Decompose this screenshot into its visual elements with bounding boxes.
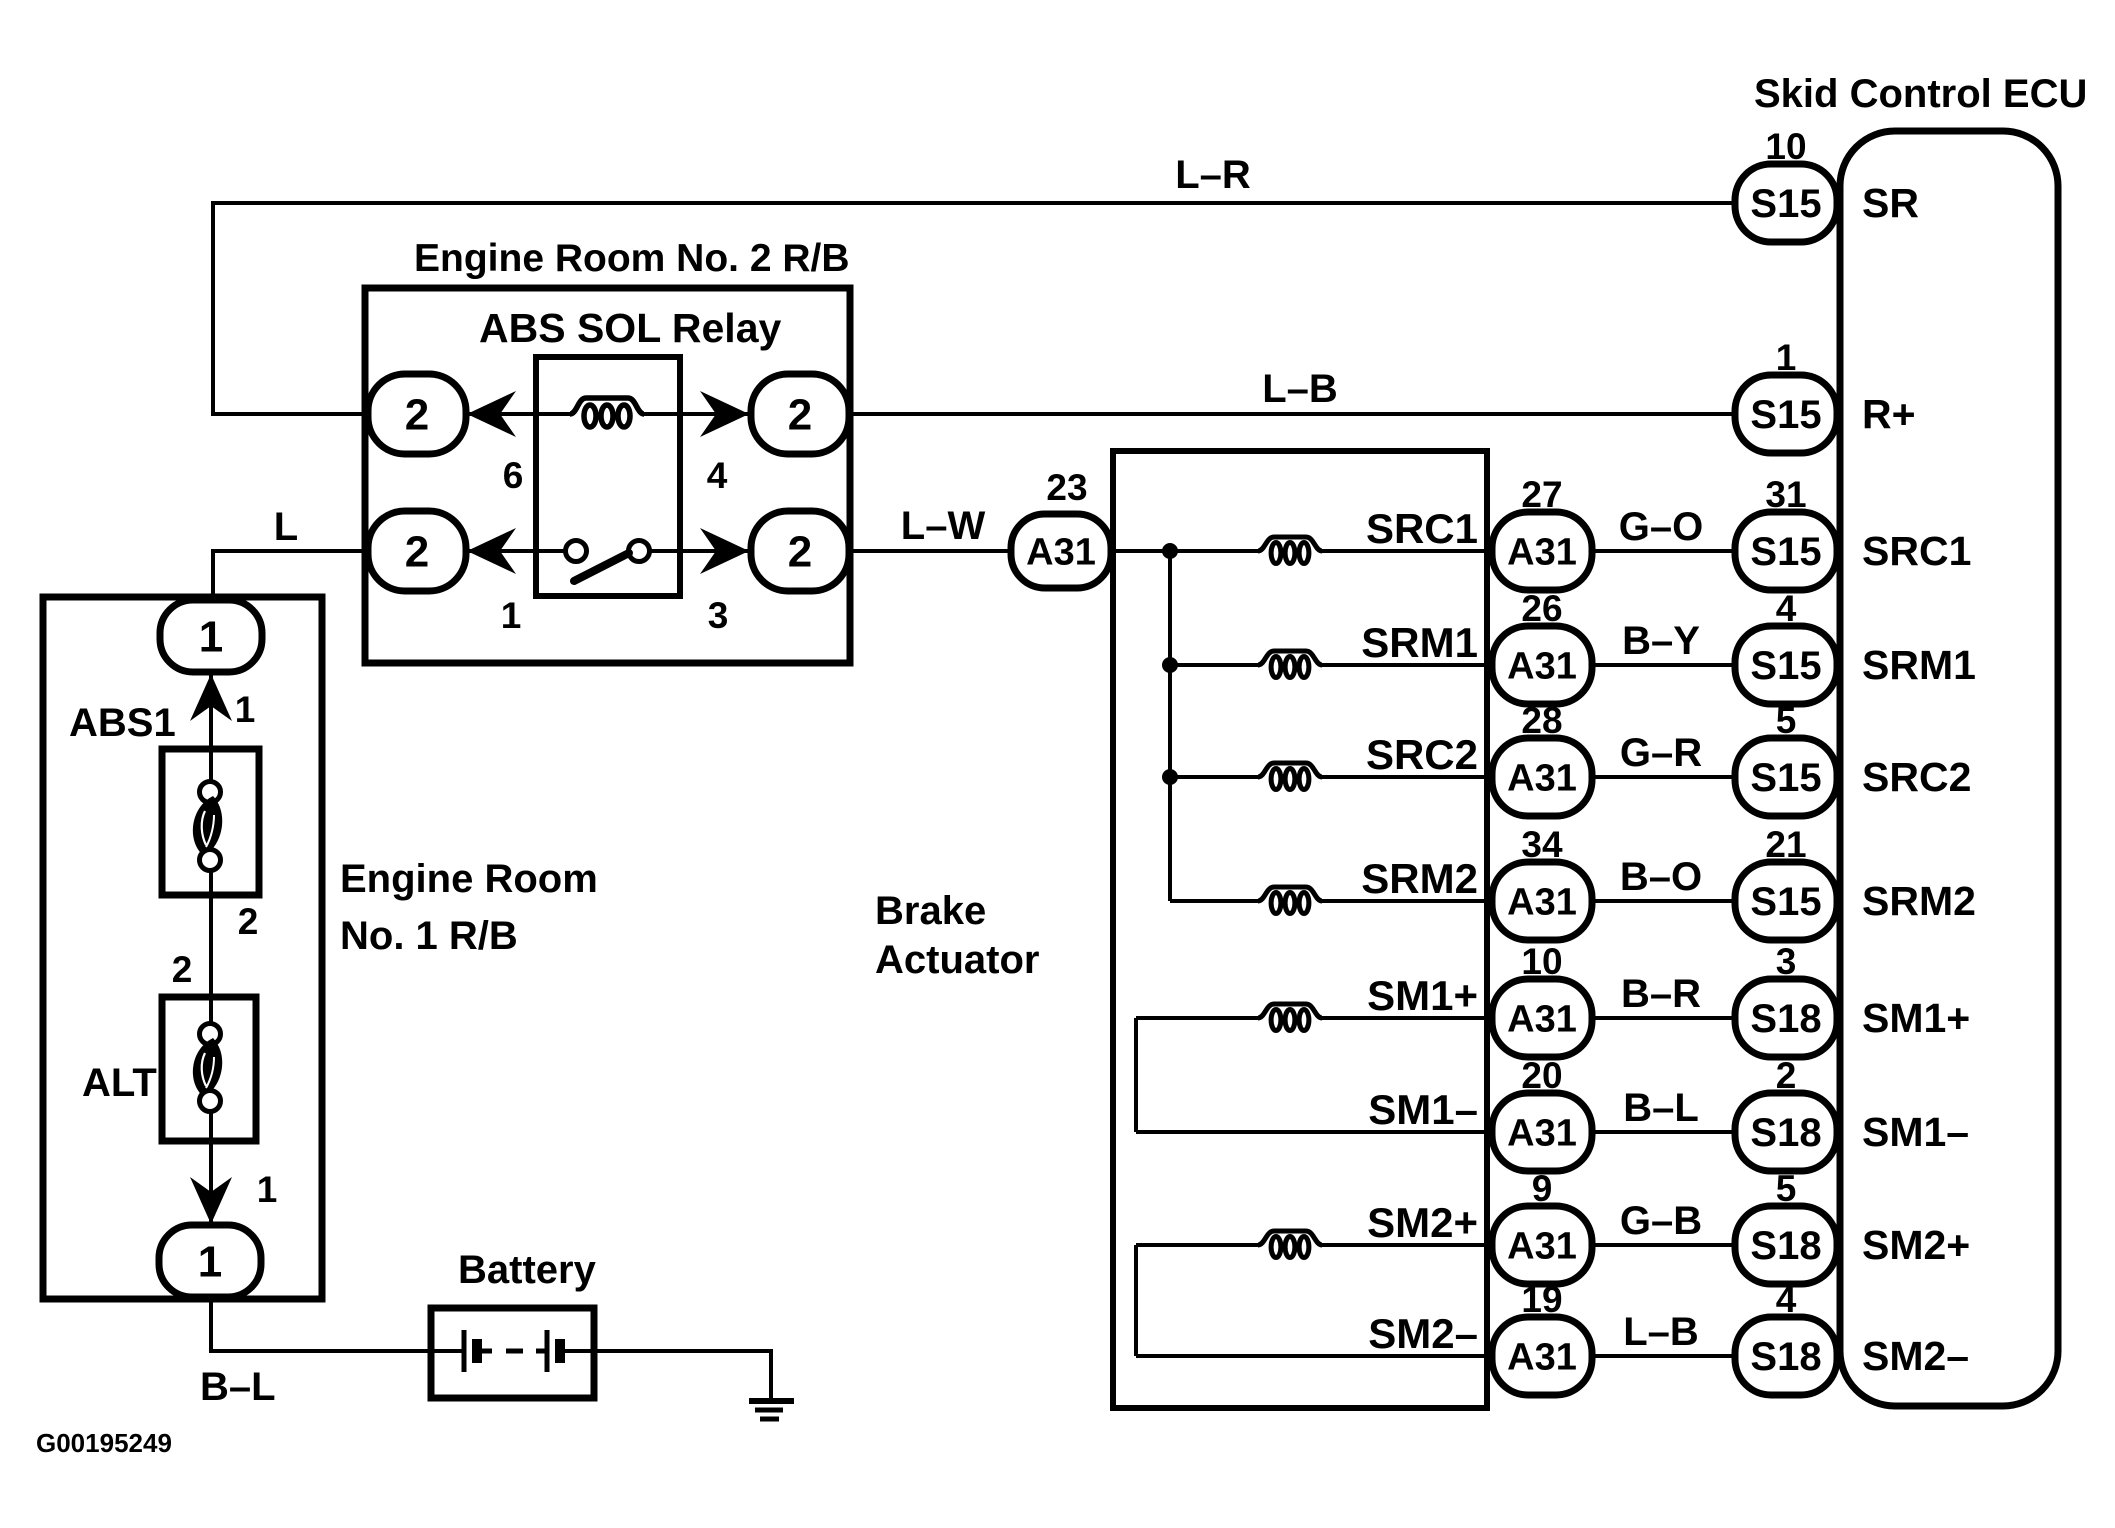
- svg-text:SM2–: SM2–: [1862, 1333, 1969, 1379]
- svg-text:A31: A31: [1026, 531, 1096, 573]
- wire B&#8211;Y (SRM1 to ECU): [1592, 663, 1737, 667]
- svg-text:1: 1: [257, 1169, 278, 1210]
- arrow up into connector 1: [190, 674, 232, 721]
- connector A31 pin 34: [1492, 862, 1592, 940]
- svg-text:SM2+: SM2+: [1367, 1199, 1478, 1246]
- wire solenoid SRC1 row: [1113, 549, 1260, 553]
- fuse ABS1 element: [193, 796, 222, 856]
- fusible link ALT terminal bottom: [200, 1091, 221, 1112]
- wire L (relay pin 1 to fuse block): [213, 549, 370, 553]
- node junction SRM1: [1162, 657, 1178, 673]
- connector 1 (fuse block bottom): [159, 1225, 261, 1297]
- connector A31 pin 9: [1492, 1206, 1592, 1284]
- svg-text:1: 1: [198, 1238, 222, 1287]
- wire motor SM2 loop: [1134, 1245, 1138, 1356]
- svg-text:G00195249: G00195249: [36, 1428, 172, 1458]
- svg-text:2: 2: [788, 528, 812, 577]
- solenoid coil SRC2: [1258, 763, 1322, 777]
- svg-text:2: 2: [172, 949, 193, 990]
- svg-text:A31: A31: [1507, 881, 1577, 923]
- arrow down into bottom connector 1: [190, 1177, 232, 1224]
- connector S15 pin 4 (SRM1): [1735, 626, 1837, 704]
- battery center dashes: [478, 1349, 492, 1354]
- svg-text:S18: S18: [1750, 1224, 1821, 1268]
- svg-text:B–Y: B–Y: [1622, 619, 1700, 663]
- wire relay to pin 4: [680, 412, 753, 416]
- svg-text:SRM2: SRM2: [1862, 878, 1976, 924]
- connector S18 pin 3 (SM1+): [1735, 979, 1837, 1057]
- wire B-L (to battery): [209, 1295, 213, 1351]
- svg-text:L: L: [274, 505, 298, 549]
- wire B&#8211;L (SM1&#8211; to ECU): [1592, 1130, 1737, 1134]
- svg-text:B–L: B–L: [200, 1365, 276, 1409]
- svg-text:SR: SR: [1862, 180, 1919, 226]
- svg-text:Engine Room No. 2 R/B: Engine Room No. 2 R/B: [414, 237, 850, 280]
- svg-text:SM1–: SM1–: [1368, 1086, 1478, 1133]
- connector 2 (relay pin 1): [368, 511, 466, 591]
- solenoid coil SRM2: [1258, 887, 1322, 901]
- svg-text:4: 4: [707, 455, 728, 496]
- connector S15 pin 21 (SRM2): [1735, 862, 1837, 940]
- svg-text:G–B: G–B: [1620, 1199, 1702, 1243]
- wire oval1 to fuse ABS1: [209, 672, 213, 783]
- wire L-R horizontal (SR net): [213, 201, 1737, 205]
- svg-text:A31: A31: [1507, 998, 1577, 1040]
- connector S15 pin 10 (SR): [1735, 164, 1837, 242]
- svg-text:6: 6: [503, 455, 524, 496]
- svg-text:SRC1: SRC1: [1862, 528, 1971, 574]
- svg-text:A31: A31: [1507, 757, 1577, 799]
- connector A31 pin 27: [1492, 512, 1592, 590]
- battery plate long right: [545, 1330, 550, 1372]
- motor coil SM2+: [1258, 1231, 1322, 1245]
- svg-text:A31: A31: [1507, 1336, 1577, 1378]
- wire B&#8211;R (SM1+ to ECU): [1592, 1016, 1737, 1020]
- svg-text:3: 3: [708, 595, 729, 636]
- svg-text:Engine Room: Engine Room: [340, 857, 598, 901]
- connector 2 (relay pin 6): [368, 374, 466, 454]
- svg-text:S15: S15: [1750, 880, 1821, 924]
- connector S18 pin 2 (SM1&#8211;): [1735, 1093, 1837, 1171]
- battery plate short right: [555, 1339, 565, 1363]
- wire motor winding SM2+ row: [1136, 1243, 1260, 1247]
- wire motor SM1 loop: [1134, 1018, 1138, 1132]
- ECU Skid Control ECU body: [1840, 131, 2058, 1406]
- wire L-B (relay pin 4 to ECU R+): [849, 412, 1737, 416]
- wire ALT to connector 1 bottom: [209, 1112, 213, 1227]
- wire G&#8211;O (SRC1 to ECU): [1592, 549, 1737, 553]
- relay switch contact left: [536, 549, 566, 553]
- wire motor return SM1&#8211; row: [1136, 1130, 1492, 1134]
- arrow into pin 3: [700, 528, 749, 574]
- svg-text:2: 2: [238, 901, 259, 942]
- svg-text:S18: S18: [1750, 1111, 1821, 1155]
- svg-text:S15: S15: [1750, 393, 1821, 437]
- svg-text:A31: A31: [1507, 1225, 1577, 1267]
- wire L-W (relay pin 3 to brake actuator): [849, 549, 1013, 553]
- svg-text:S18: S18: [1750, 1335, 1821, 1379]
- relay coil: [570, 398, 644, 414]
- wire pin1 to relay switch: [466, 549, 540, 553]
- battery plate long left: [462, 1330, 467, 1372]
- svg-text:S18: S18: [1750, 997, 1821, 1041]
- svg-text:SRM2: SRM2: [1361, 855, 1478, 902]
- solenoid coil SRM1: [1258, 651, 1322, 665]
- svg-text:ALT: ALT: [82, 1061, 157, 1105]
- relay switch contact right: [629, 541, 650, 562]
- svg-text:1: 1: [199, 613, 223, 662]
- solenoid coil SRC1: [1258, 537, 1322, 551]
- svg-text:B–O: B–O: [1620, 855, 1702, 899]
- ground: [749, 1398, 794, 1404]
- svg-text:SRC2: SRC2: [1862, 754, 1971, 800]
- junction box Engine Room No. 1 R/B: [43, 597, 322, 1299]
- svg-text:S15: S15: [1750, 756, 1821, 800]
- battery body: [431, 1308, 594, 1398]
- connector S15 pin 1 (R+): [1735, 375, 1837, 453]
- connector A31 pin 20: [1492, 1093, 1592, 1171]
- svg-text:SRC2: SRC2: [1366, 731, 1478, 778]
- component box Brake Actuator: [1113, 451, 1487, 1408]
- svg-text:23: 23: [1046, 467, 1087, 508]
- svg-text:2: 2: [405, 528, 429, 577]
- connector 2 (relay pin 4): [751, 374, 849, 454]
- svg-text:1: 1: [235, 689, 256, 730]
- svg-text:ABS SOL Relay: ABS SOL Relay: [479, 305, 781, 351]
- svg-text:SM1–: SM1–: [1862, 1109, 1969, 1155]
- svg-text:S15: S15: [1750, 530, 1821, 574]
- connector A31 pin 28: [1492, 738, 1592, 816]
- connector S15 pin 31 (SRC1): [1735, 512, 1837, 590]
- arrow into pin 4: [700, 391, 749, 437]
- svg-text:G–R: G–R: [1620, 731, 1702, 775]
- arrow into pin 1: [467, 528, 516, 574]
- wire G&#8211;B (SM2+ to ECU): [1592, 1243, 1737, 1247]
- wire solenoid SRC2 row: [1170, 775, 1260, 779]
- node junction SRC1: [1162, 543, 1178, 559]
- node junction SRC2: [1162, 769, 1178, 785]
- motor coil SM1+: [1258, 1004, 1322, 1018]
- svg-text:SM2–: SM2–: [1368, 1310, 1478, 1357]
- svg-text:R+: R+: [1862, 391, 1916, 437]
- fusible link ALT element: [193, 1038, 222, 1097]
- junction box Engine Room No. 2 R/B: [365, 288, 850, 663]
- svg-text:S15: S15: [1750, 182, 1821, 226]
- svg-text:Brake: Brake: [875, 889, 986, 933]
- arrow into pin 6: [467, 391, 516, 437]
- svg-text:No. 1 R/B: No. 1 R/B: [340, 914, 518, 958]
- svg-text:L–B: L–B: [1262, 367, 1338, 411]
- wire relay to pin 3: [680, 549, 753, 553]
- wire motor winding SM1+ row: [1136, 1016, 1260, 1020]
- connector S15 pin 5 (SRC2): [1735, 738, 1837, 816]
- connector 2 (relay pin 3): [751, 511, 849, 591]
- svg-text:SM2+: SM2+: [1862, 1222, 1970, 1268]
- svg-text:1: 1: [501, 595, 522, 636]
- relay switch blade: [574, 553, 629, 581]
- svg-text:L–B: L–B: [1623, 1310, 1699, 1354]
- wire pin6 to relay: [466, 412, 540, 416]
- svg-text:L–W: L–W: [901, 504, 986, 548]
- svg-text:2: 2: [405, 391, 429, 440]
- wire ABS1 to ALT: [209, 871, 213, 1025]
- wire motor return SM2&#8211; row: [1136, 1354, 1492, 1358]
- svg-text:A31: A31: [1507, 1112, 1577, 1154]
- wire solenoid SRM1 row: [1170, 663, 1260, 667]
- svg-text:A31: A31: [1507, 645, 1577, 687]
- svg-text:B–L: B–L: [1623, 1086, 1699, 1130]
- svg-text:S15: S15: [1750, 644, 1821, 688]
- connector S18 pin 5 (SM2+): [1735, 1206, 1837, 1284]
- fuse ABS1 body: [162, 749, 259, 895]
- battery plate short left: [472, 1339, 482, 1363]
- svg-text:L–R: L–R: [1175, 153, 1251, 197]
- connector 1 (fuse block top): [160, 600, 262, 672]
- connector A31 pin 10: [1492, 979, 1592, 1057]
- svg-text:Battery: Battery: [458, 1248, 597, 1292]
- relay ABS SOL Relay body: [536, 357, 680, 596]
- svg-text:B–R: B–R: [1621, 972, 1701, 1016]
- wire solenoid bus vertical: [1168, 551, 1172, 901]
- svg-text:SM1+: SM1+: [1367, 972, 1478, 1019]
- wire left vertical bus x=213 (SR net down to relay coil row): [211, 201, 215, 414]
- svg-text:A31: A31: [1507, 531, 1577, 573]
- wire B&#8211;O (SRM2 to ECU): [1592, 899, 1737, 903]
- svg-text:SRM1: SRM1: [1361, 619, 1478, 666]
- wire to relay pin 6: [211, 412, 370, 416]
- svg-text:Skid Control ECU: Skid Control ECU: [1754, 72, 2087, 116]
- wire battery to ground: [560, 1349, 771, 1353]
- svg-text:SM1+: SM1+: [1862, 995, 1970, 1041]
- fuse ABS1 terminal top: [200, 782, 221, 803]
- fuse ABS1 terminal bottom: [200, 850, 221, 871]
- connector A31 pin 23: [1011, 514, 1111, 588]
- svg-text:SRM1: SRM1: [1862, 642, 1976, 688]
- connector A31 pin 26: [1492, 626, 1592, 704]
- svg-text:G–O: G–O: [1619, 505, 1703, 549]
- connector S18 pin 4 (SM2&#8211;): [1735, 1317, 1837, 1395]
- fusible link ALT body: [162, 997, 256, 1141]
- wire G&#8211;R (SRC2 to ECU): [1592, 775, 1737, 779]
- connector A31 pin 19: [1492, 1317, 1592, 1395]
- wire L&#8211;B (SM2&#8211; to ECU): [1592, 1354, 1737, 1358]
- wire solenoid SRM2 row: [1170, 899, 1260, 903]
- svg-text:SRC1: SRC1: [1366, 505, 1478, 552]
- svg-text:2: 2: [788, 391, 812, 440]
- fusible link ALT terminal top: [200, 1024, 221, 1045]
- svg-text:ABS1: ABS1: [69, 701, 176, 745]
- svg-text:Actuator: Actuator: [875, 938, 1039, 982]
